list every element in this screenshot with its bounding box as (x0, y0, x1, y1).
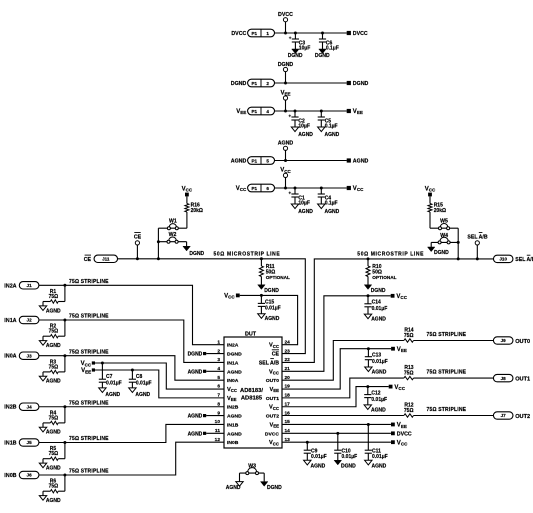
svg-text:AGND: AGND (372, 464, 387, 470)
svg-text:VCC: VCC (353, 186, 364, 192)
svg-text:DGND: DGND (278, 62, 294, 68)
svg-text:OUT0: OUT0 (515, 339, 530, 345)
svg-text:75Ω: 75Ω (49, 484, 59, 490)
svg-text:W3: W3 (248, 464, 256, 470)
svg-text:+: + (289, 37, 292, 42)
svg-text:AGND: AGND (188, 369, 203, 375)
connector J10 (SEL A/B) (493, 255, 513, 262)
svg-text:75Ω STRIPLINE: 75Ω STRIPLINE (69, 400, 109, 406)
svg-text:75Ω: 75Ω (49, 451, 59, 457)
ground AGND at W3 (239, 473, 241, 482)
svg-text:AGND: AGND (372, 370, 387, 376)
resistor R3 75ohm (63, 354, 66, 357)
svg-text:OUT2: OUT2 (266, 414, 280, 420)
terminal AGND right (347, 158, 351, 162)
svg-text:75Ω STRIPLINE: 75Ω STRIPLINE (427, 407, 467, 413)
svg-text:OPTIONAL: OPTIONAL (372, 275, 396, 280)
svg-text:J9: J9 (501, 338, 507, 343)
svg-text:VCC: VCC (269, 440, 279, 446)
svg-text:J2: J2 (27, 318, 33, 323)
terminal VEE stub (285, 100, 287, 111)
svg-text:VCC: VCC (182, 186, 193, 192)
svg-text:VEE: VEE (81, 368, 91, 374)
capacitor C4 0.1&#181;F (320, 187, 323, 190)
svg-text:DVCC: DVCC (265, 431, 280, 437)
svg-text:W1: W1 (169, 219, 177, 225)
svg-text:OUT2: OUT2 (515, 414, 530, 420)
svg-text:DGND: DGND (227, 352, 242, 358)
svg-text:DGND: DGND (231, 81, 247, 87)
svg-text:IN2A: IN2A (227, 343, 239, 349)
svg-text:IN2A: IN2A (4, 283, 16, 289)
svg-text:VCC: VCC (269, 369, 279, 375)
svg-text:P1: P1 (251, 186, 257, 191)
svg-text:IN1B: IN1B (4, 441, 16, 447)
svg-text:VEE: VEE (236, 109, 246, 115)
svg-text:IN0B: IN0B (4, 473, 16, 479)
svg-text:0.01µF: 0.01µF (265, 306, 281, 312)
svg-text:AGND: AGND (325, 132, 340, 138)
wire VEE pin 15 (282, 423, 391, 425)
svg-text:AGND: AGND (135, 392, 150, 398)
svg-text:SEL A/B: SEL A/B (259, 360, 279, 366)
svg-text:AGND: AGND (46, 308, 61, 314)
connector J7 (OUT2) (493, 412, 513, 419)
svg-text:24: 24 (285, 339, 291, 345)
wire DVCC pin 14 (282, 432, 391, 434)
wire VCC pin 13 (282, 441, 391, 443)
svg-text:CE: CE (134, 234, 142, 240)
svg-text:IN1B: IN1B (227, 422, 239, 428)
svg-text:75Ω STRIPLINE: 75Ω STRIPLINE (427, 332, 467, 338)
svg-text:AGND: AGND (311, 464, 326, 470)
svg-text:CE: CE (84, 257, 92, 263)
capacitor C14 0.01uF (367, 294, 370, 297)
ground AGND under R5 (39, 463, 46, 468)
svg-text:VCC: VCC (269, 343, 279, 349)
ground AGND under R2 (39, 341, 46, 346)
svg-text:75Ω: 75Ω (404, 408, 414, 414)
svg-text:AGND: AGND (227, 431, 242, 437)
capacitor C12 0.01uF (366, 385, 369, 388)
svg-text:OPTIONAL: OPTIONAL (266, 275, 290, 280)
svg-text:AGND: AGND (227, 414, 242, 420)
svg-text:AGND: AGND (298, 132, 313, 138)
wire VCC row (275, 187, 347, 189)
svg-text:DVCC: DVCC (397, 432, 412, 438)
svg-text:0.01µF: 0.01µF (311, 454, 327, 460)
svg-text:AGND: AGND (105, 392, 120, 398)
svg-text:P1: P1 (251, 31, 257, 36)
resistor R6 75ohm (63, 474, 66, 477)
svg-text:VCC: VCC (280, 168, 291, 174)
svg-text:VEE: VEE (353, 109, 363, 115)
jumper W3 (240, 472, 265, 474)
svg-text:CE: CE (272, 352, 280, 358)
svg-text:IN2B: IN2B (227, 405, 239, 411)
svg-text:VEE: VEE (397, 423, 407, 429)
svg-text:AGND: AGND (298, 209, 313, 215)
ground AGND under R3 (39, 376, 46, 381)
svg-text:75Ω STRIPLINE: 75Ω STRIPLINE (69, 349, 109, 355)
ground AGND under C7 (99, 388, 106, 393)
svg-text:0.1µF: 0.1µF (325, 200, 338, 206)
wire VCC to pin 6 (95, 363, 224, 389)
svg-text:AD8185: AD8185 (241, 396, 263, 402)
svg-text:J5: J5 (27, 440, 33, 445)
svg-text:20kΩ: 20kΩ (191, 208, 203, 214)
capacitor C7 0.01uF (101, 362, 104, 365)
capacitor C13 0.01uF (367, 347, 370, 350)
terminal VCC (C12 net) (389, 385, 393, 389)
svg-text:75Ω: 75Ω (49, 364, 59, 370)
ground AGND under C8 (129, 388, 136, 393)
svg-text:VEE: VEE (269, 387, 279, 393)
svg-text:IN1A: IN1A (4, 318, 16, 324)
svg-text:W2: W2 (169, 232, 177, 238)
svg-text:DVCC: DVCC (278, 12, 293, 18)
svg-text:50Ω MICROSTRIP LINE: 50Ω MICROSTRIP LINE (357, 252, 424, 258)
resistor R11 50ohm optional (260, 257, 263, 260)
terminal VEE right (347, 109, 351, 113)
jumper W4 (431, 241, 458, 243)
svg-text:DVCC: DVCC (231, 31, 246, 37)
wire DVCC row (275, 32, 347, 34)
svg-text:SEL A/B: SEL A/B (467, 234, 487, 240)
svg-text:VCC: VCC (425, 186, 436, 192)
svg-text:+: + (288, 115, 291, 120)
svg-text:0.1µF: 0.1µF (326, 45, 339, 51)
terminal DVCC stub (285, 22, 287, 33)
svg-text:DGND: DGND (189, 251, 204, 257)
svg-text:VCC: VCC (397, 440, 408, 446)
svg-text:0.01µF: 0.01µF (372, 454, 388, 460)
terminal DGND right (347, 81, 351, 85)
terminal VCC right (C14 net) (391, 294, 395, 298)
svg-text:5: 5 (266, 158, 269, 163)
wire DGND row (275, 82, 347, 84)
svg-text:AGND: AGND (371, 407, 386, 413)
capacitor C2 10&#181;F (294, 110, 297, 113)
svg-text:AGND: AGND (46, 343, 61, 349)
svg-text:0.01µF: 0.01µF (136, 380, 152, 386)
resistor R5 75ohm (63, 441, 66, 444)
wire VCC to pin 21 (282, 296, 391, 371)
resistor R10 50ohm optional (367, 257, 370, 260)
svg-text:DGND: DGND (188, 352, 203, 358)
svg-text:AGND: AGND (227, 369, 242, 375)
connector J8 (OUT1) (493, 374, 513, 381)
wire VCC to pin 24 (240, 295, 298, 344)
svg-text:C13: C13 (372, 353, 381, 359)
svg-text:IN0A: IN0A (4, 354, 16, 360)
terminal VCC pin 13 (391, 440, 395, 444)
svg-text:W4: W4 (440, 233, 448, 239)
wire OUT2 75ohm stripline (282, 415, 404, 417)
svg-text:VCC: VCC (394, 385, 405, 391)
svg-text:1: 1 (266, 31, 269, 36)
wire OUT0 75ohm stripline (282, 341, 404, 381)
svg-text:21: 21 (285, 366, 291, 372)
wire AGND row (275, 160, 347, 162)
svg-text:75Ω STRIPLINE: 75Ω STRIPLINE (69, 469, 109, 475)
svg-text:J1: J1 (27, 283, 33, 288)
svg-text:75Ω STRIPLINE: 75Ω STRIPLINE (69, 279, 109, 285)
svg-text:W5: W5 (440, 219, 448, 225)
svg-text:DVCC: DVCC (353, 31, 368, 37)
svg-text:AGND: AGND (188, 431, 203, 437)
connector J9 (OUT0) (493, 337, 513, 344)
svg-text:IN1A: IN1A (227, 360, 239, 366)
capacitor C3 10&#181;F (294, 32, 297, 35)
svg-text:C15: C15 (265, 299, 274, 305)
svg-text:75Ω: 75Ω (49, 329, 59, 335)
capacitor C1 10&#181;F (294, 187, 297, 190)
svg-text:0.01µF: 0.01µF (372, 306, 388, 312)
svg-text:0.01µF: 0.01µF (342, 454, 358, 460)
terminal DVCC pin 14 (391, 431, 395, 435)
svg-text:10µF: 10µF (298, 200, 310, 206)
svg-text:VEE: VEE (280, 90, 290, 96)
svg-text:OUT1: OUT1 (266, 396, 280, 402)
wire VEE to pin 7 (95, 370, 224, 398)
svg-text:J11: J11 (102, 257, 110, 262)
svg-text:VCC: VCC (227, 387, 237, 393)
svg-text:10µF: 10µF (299, 45, 311, 51)
svg-text:22: 22 (285, 357, 291, 363)
wire VEE to pin 19 (282, 349, 391, 389)
svg-text:AGND: AGND (265, 316, 280, 322)
svg-text:DGND: DGND (288, 53, 303, 59)
resistor R4 75ohm (63, 405, 66, 408)
svg-text:VEE: VEE (227, 396, 237, 402)
svg-text:J7: J7 (501, 413, 507, 418)
svg-text:VEE: VEE (397, 347, 407, 353)
ground DGND at W2 (186, 242, 188, 247)
wire VEE row (275, 110, 347, 112)
capacitor C10 0.01uF (336, 432, 339, 435)
svg-text:J6: J6 (27, 473, 33, 478)
svg-text:IN0B: IN0B (227, 440, 239, 446)
svg-text:OUT0: OUT0 (266, 378, 280, 384)
resistor R16 20k (186, 196, 188, 203)
svg-text:IN0A: IN0A (227, 378, 239, 384)
svg-text:AGND: AGND (46, 466, 61, 472)
svg-text:AGND: AGND (226, 485, 241, 491)
svg-text:VCC: VCC (224, 294, 235, 300)
wire OUT1 75ohm stripline (282, 378, 404, 398)
terminal DGND stub (285, 72, 287, 83)
svg-text:AGND: AGND (188, 414, 203, 420)
svg-text:75Ω STRIPLINE: 75Ω STRIPLINE (69, 314, 109, 320)
svg-text:AGND: AGND (46, 498, 61, 504)
svg-text:75Ω STRIPLINE: 75Ω STRIPLINE (427, 370, 467, 376)
svg-text:VCC: VCC (269, 405, 279, 411)
wire W5-W4 right vertical (457, 228, 459, 259)
svg-text:J4: J4 (27, 404, 33, 409)
wire VCC to pin 17 (282, 387, 389, 407)
svg-text:AGND: AGND (325, 209, 340, 215)
terminal VEE (C13 net) (391, 347, 395, 351)
svg-text:J8: J8 (501, 376, 507, 381)
ground AGND under R4 (39, 427, 46, 432)
ground DGND at W4 (430, 242, 432, 247)
svg-text:AGND: AGND (231, 159, 247, 165)
capacitor C8 0.01uF (131, 369, 134, 372)
svg-text:DGND: DGND (353, 81, 369, 87)
svg-text:2: 2 (266, 81, 269, 86)
svg-text:+: + (288, 192, 291, 197)
svg-text:VCC: VCC (396, 294, 407, 300)
svg-text:0.01µF: 0.01µF (371, 397, 387, 403)
svg-text:C14: C14 (372, 300, 381, 306)
svg-text:75Ω: 75Ω (49, 294, 59, 300)
ground DGND at W3 (263, 473, 265, 482)
svg-text:0.01µF: 0.01µF (372, 359, 388, 365)
svg-text:AGND: AGND (46, 430, 61, 436)
jumper W2 (158, 241, 186, 243)
svg-text:0.1µF: 0.1µF (325, 123, 338, 129)
svg-text:DGND: DGND (315, 53, 330, 59)
svg-text:DUT: DUT (245, 331, 257, 337)
svg-text:20kΩ: 20kΩ (434, 208, 446, 214)
capacitor C9 0.01uF (306, 441, 309, 444)
svg-text:DGND: DGND (267, 485, 282, 491)
svg-text:6: 6 (266, 186, 269, 191)
capacitor C6 0.1&#181;F (321, 32, 324, 35)
svg-text:AGND: AGND (46, 379, 61, 385)
capacitor C11 0.01uF (367, 423, 370, 426)
terminal VCC stub (285, 178, 287, 189)
svg-text:P1: P1 (251, 158, 257, 163)
svg-text:J3: J3 (27, 353, 33, 358)
svg-text:0.01µF: 0.01µF (106, 380, 122, 386)
ground AGND under R1 (39, 306, 46, 311)
terminal VEE pin 15 (391, 423, 395, 427)
wire W1-W2 left vertical (157, 228, 159, 259)
resistor R15 20k (429, 196, 431, 203)
terminal VCC right (347, 186, 351, 190)
svg-text:75Ω: 75Ω (49, 415, 59, 421)
svg-text:50Ω MICROSTRIP LINE: 50Ω MICROSTRIP LINE (214, 252, 281, 258)
svg-text:AGND: AGND (353, 159, 369, 165)
svg-text:75Ω: 75Ω (404, 371, 414, 377)
jumper W5 (430, 227, 458, 229)
svg-text:AGND: AGND (278, 141, 294, 147)
svg-text:C8: C8 (136, 374, 143, 380)
svg-text:DGND: DGND (264, 288, 279, 294)
svg-text:C7: C7 (106, 374, 113, 380)
capacitor C5 0.1&#181;F (320, 110, 323, 113)
svg-text:23: 23 (285, 348, 291, 354)
svg-text:75Ω: 75Ω (404, 333, 414, 339)
svg-text:P1: P1 (251, 81, 257, 86)
svg-text:DGND: DGND (341, 464, 356, 470)
resistor R1 75ohm (63, 284, 66, 287)
svg-text:10µF: 10µF (298, 123, 310, 129)
resistor R2 75ohm (63, 319, 66, 322)
jumper W1 (158, 227, 187, 229)
svg-text:C12: C12 (371, 391, 380, 397)
svg-text:P1: P1 (251, 109, 257, 114)
op-amp U1 DUT AD8183/AD8185 body (224, 337, 282, 448)
svg-text:DGND: DGND (371, 288, 386, 294)
svg-text:IN2B: IN2B (4, 405, 16, 411)
terminal AGND stub (285, 150, 287, 160)
svg-text:VEE: VEE (269, 422, 279, 428)
svg-text:OUT1: OUT1 (515, 376, 530, 382)
terminal DVCC right (347, 31, 351, 35)
svg-text:J10: J10 (499, 257, 507, 262)
svg-text:75Ω STRIPLINE: 75Ω STRIPLINE (69, 436, 109, 442)
svg-text:AD8183/: AD8183/ (240, 388, 263, 394)
svg-text:SEL A/B: SEL A/B (515, 257, 533, 263)
svg-text:VCC: VCC (236, 186, 247, 192)
svg-text:DGND: DGND (434, 250, 449, 256)
svg-text:4: 4 (266, 109, 269, 114)
ground AGND under R6 (39, 496, 46, 501)
svg-text:AGND: AGND (371, 317, 386, 323)
svg-text:VCC: VCC (81, 361, 92, 367)
capacitor C15 0.01uF (260, 294, 263, 297)
